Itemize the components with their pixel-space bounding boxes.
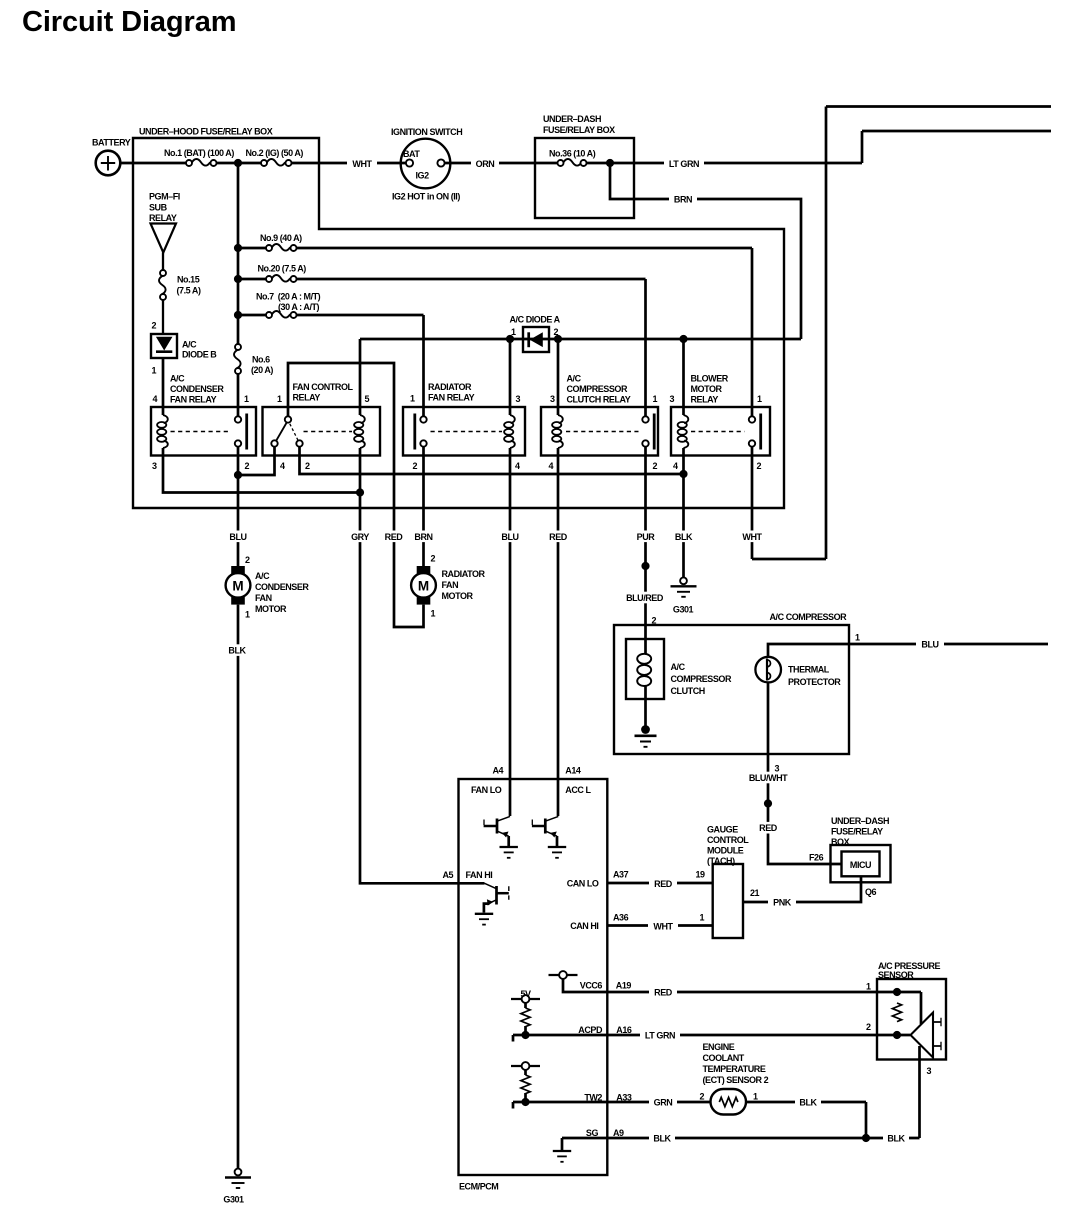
wire fuse No.9 to blower relay pin 1 (238, 248, 752, 416)
svg-text:(ECT) SENSOR 2: (ECT) SENSOR 2 (703, 1075, 769, 1085)
wire blower relay pin 3 drop (682, 339, 685, 415)
ground (ECM SG) (553, 1150, 571, 1152)
wire compressor clutch coil to ground (644, 686, 647, 727)
svg-text:FUSE/RELAY: FUSE/RELAY (831, 827, 883, 837)
svg-text:2: 2 (866, 1022, 871, 1032)
junction diode A pin 1 node (506, 335, 514, 343)
svg-text:3: 3 (927, 1066, 932, 1076)
svg-text:No.6: No.6 (252, 354, 270, 364)
wire label BLU (ECM A4) (495, 531, 525, 543)
gauge control module box (713, 864, 743, 938)
svg-text:No.36 (10 A): No.36 (10 A) (549, 149, 596, 159)
5V supply (ACPD pull-up) (511, 998, 540, 1000)
svg-text:MICU: MICU (850, 860, 871, 870)
wire BLK condenser fan motor to G301 (237, 605, 240, 1169)
svg-text:2: 2 (152, 321, 157, 331)
svg-text:F26: F26 (809, 852, 824, 862)
svg-text:(20 A): (20 A) (251, 365, 273, 375)
svg-text:ECM/PCM: ECM/PCM (459, 1182, 498, 1192)
wire label RED (fan control pin 1) (379, 531, 409, 543)
svg-text:1: 1 (277, 394, 282, 404)
wire label BLU/WHT (744, 772, 792, 784)
svg-text:CAN HI: CAN HI (570, 921, 598, 931)
wire label RED (ECM A14) (543, 531, 573, 543)
svg-text:BLK: BLK (675, 532, 693, 542)
wire label WHT (347, 158, 377, 170)
svg-text:VCC6: VCC6 (580, 980, 603, 990)
svg-text:1: 1 (431, 609, 436, 619)
blower motor relay box (671, 407, 770, 456)
svg-text:TW2: TW2 (584, 1093, 602, 1103)
svg-text:2: 2 (757, 461, 762, 471)
svg-text:No.1 (BAT) (100 A): No.1 (BAT) (100 A) (164, 148, 234, 158)
svg-text:BLK: BLK (228, 646, 246, 656)
relay switch (fan control relay) (285, 416, 291, 422)
svg-text:FAN: FAN (442, 580, 459, 590)
wire BLK blower pin 4 to G301 (682, 448, 685, 577)
svg-text:A14: A14 (565, 765, 581, 775)
svg-text:GRY: GRY (351, 532, 369, 542)
wire label RED (to F26) (754, 822, 782, 834)
svg-text:1: 1 (653, 394, 658, 404)
svg-text:G301: G301 (673, 605, 694, 615)
svg-text:A/C: A/C (255, 571, 270, 581)
svg-text:DIODE B: DIODE B (182, 350, 217, 360)
wire label ORN (471, 158, 499, 170)
svg-text:Circuit Diagram: Circuit Diagram (22, 6, 236, 38)
relay contact (radiator fan relay) (420, 416, 426, 422)
svg-text:RADIATOR: RADIATOR (442, 569, 486, 579)
fuse No.9 (40 A) (272, 244, 290, 251)
svg-text:ORN: ORN (476, 159, 495, 169)
ground G301 (condenser fan motor BLK) (235, 1169, 242, 1176)
svg-text:UNDER–DASH: UNDER–DASH (831, 816, 889, 826)
svg-text:1: 1 (245, 610, 250, 620)
wire fan control pin 1 / RED to radiator fan motor pin 1 (288, 363, 424, 627)
wire BLU radiator pin 4 to ECM A4 (509, 448, 512, 816)
svg-text:SUB: SUB (149, 202, 168, 212)
relay contact (A/C compressor clutch relay) (642, 416, 648, 422)
svg-text:M: M (418, 578, 429, 593)
A/C compressor box (614, 625, 849, 754)
transistor FAN HI (A5) (485, 883, 497, 889)
PGM-FI sub relay triangle (151, 224, 177, 253)
svg-text:No.9 (40 A): No.9 (40 A) (260, 233, 302, 243)
wire PGM-FI sub relay to fuse No.15 (162, 253, 164, 335)
wire label BLU (condenser motor) (223, 531, 253, 543)
svg-text:BOX: BOX (831, 837, 850, 847)
svg-text:WHT: WHT (742, 532, 762, 542)
A/C compressor clutch relay box (541, 407, 658, 456)
relay coil (A/C condenser fan relay) (163, 415, 168, 423)
wire BRN radiator pin 2 to radiator fan motor (422, 447, 425, 566)
svg-text:IG2: IG2 (416, 171, 430, 181)
svg-text:1: 1 (410, 394, 415, 404)
svg-text:No.7 (20 A : M/T): No.7 (20 A : M/T) (256, 292, 321, 302)
wire label BLK (A9) (649, 1132, 675, 1144)
svg-text:FAN CONTROL: FAN CONTROL (293, 382, 354, 392)
A/C diode A box (523, 327, 549, 352)
svg-text:CLUTCH RELAY: CLUTCH RELAY (567, 394, 631, 404)
svg-text:WHT: WHT (653, 921, 673, 931)
5V supply (TW2 pull-up) (511, 1065, 540, 1067)
svg-text:5V: 5V (520, 989, 531, 999)
svg-text:PUR: PUR (637, 532, 656, 542)
svg-text:COMPRESSOR: COMPRESSOR (671, 674, 732, 684)
junction TW2 pull-up node (521, 1098, 529, 1106)
svg-text:4: 4 (153, 394, 158, 404)
splice dot PUR to BLU/RED (641, 562, 649, 570)
svg-text:A4: A4 (493, 765, 504, 775)
svg-text:No.15: No.15 (177, 275, 200, 285)
svg-text:BRN: BRN (414, 532, 432, 542)
svg-text:LT GRN: LT GRN (645, 1031, 675, 1041)
svg-text:A/C: A/C (671, 662, 686, 672)
wire CAN LO RED (607, 882, 712, 885)
svg-text:MOTOR: MOTOR (691, 384, 723, 394)
svg-text:3: 3 (670, 394, 675, 404)
svg-text:1: 1 (511, 327, 516, 337)
svg-text:RED: RED (549, 532, 568, 542)
junction ACPD pull-up node (521, 1031, 529, 1039)
svg-text:2: 2 (554, 327, 559, 337)
svg-text:CAN LO: CAN LO (567, 879, 599, 889)
under-hood fuse/relay box (133, 138, 784, 508)
svg-text:(7.5 A): (7.5 A) (177, 286, 201, 296)
svg-text:RED: RED (654, 988, 673, 998)
svg-text:G301: G301 (223, 1195, 244, 1205)
wire GRY fan control pin 3 to ECM FAN HI (A5) (360, 448, 485, 883)
svg-text:FAN HI: FAN HI (466, 870, 493, 880)
wire main bus from battery junction down to condenser relay pin 1 (237, 163, 240, 416)
wire SG / A9 BLK to pressure sensor pin 3 (562, 1046, 920, 1151)
battery (96, 151, 121, 176)
svg-text:5: 5 (365, 394, 370, 404)
svg-text:CONTROL: CONTROL (707, 835, 749, 845)
A/C compressor clutch coil (637, 654, 651, 664)
resistor (ECT sensor 2) (719, 1097, 738, 1106)
svg-text:THERMAL: THERMAL (788, 664, 830, 674)
wire diode A row (coil feed bus) (360, 338, 801, 341)
wire label LT GRN (A16) (640, 1029, 680, 1041)
svg-text:2: 2 (245, 555, 250, 565)
svg-text:A33: A33 (616, 1093, 632, 1103)
splice dot BLU/WHT to RED (764, 799, 772, 807)
svg-text:GAUGE: GAUGE (707, 825, 738, 835)
wire label PUR (clutch relay pin 2) (631, 531, 661, 543)
relay contact (A/C condenser fan relay) (235, 416, 241, 422)
fuse No.2 (IG)(50 A) (267, 159, 285, 166)
radiator fan motor terminal 1 (417, 596, 431, 604)
wire compressor pin 1 BLU (768, 644, 1048, 657)
wire label GRY (fan control pin 3) (345, 531, 375, 543)
relay coil (blower motor relay) (684, 415, 689, 423)
A/C diode B symbol (157, 337, 172, 349)
svg-text:19: 19 (696, 870, 706, 880)
svg-text:BLU/WHT: BLU/WHT (749, 773, 788, 783)
resistor (ACPD pull-up) (521, 1008, 530, 1027)
svg-text:WHT: WHT (352, 159, 372, 169)
wire PUR / BLU-RED clutch pin 2 to compressor clutch coil (644, 447, 647, 654)
wire label BLU/RED (622, 592, 668, 604)
wire label BLU (compressor pin1) (916, 638, 944, 650)
wire fan control pin 2 to blower pin 4 junction (300, 447, 684, 474)
svg-text:A/C: A/C (182, 340, 197, 350)
svg-text:21: 21 (750, 888, 760, 898)
svg-text:FAN LO: FAN LO (471, 785, 502, 795)
svg-text:1: 1 (152, 365, 157, 375)
svg-text:FUSE/RELAY BOX: FUSE/RELAY BOX (543, 125, 615, 135)
svg-text:2: 2 (653, 461, 658, 471)
resistor (A/C pressure sensor) (892, 1003, 901, 1022)
under-dash fuse/relay box (lower, MICU) (831, 845, 891, 882)
svg-text:(TACH): (TACH) (707, 856, 735, 866)
svg-text:ENGINE: ENGINE (703, 1042, 735, 1052)
svg-text:M: M (232, 578, 243, 593)
svg-text:2: 2 (431, 554, 436, 564)
svg-text:FAN RELAY: FAN RELAY (428, 393, 475, 403)
ignition switch (401, 139, 451, 189)
svg-text:BLK: BLK (799, 1098, 817, 1108)
svg-text:4: 4 (280, 461, 285, 471)
wire ignition to under-dash box (ORN) (445, 162, 558, 165)
svg-text:RELAY: RELAY (691, 394, 719, 404)
svg-text:1: 1 (753, 1092, 758, 1102)
svg-text:BLU: BLU (921, 639, 938, 649)
wire label PNK (768, 896, 796, 908)
wire label GRN (A33) (649, 1096, 677, 1108)
radiator fan motor terminal 2 (417, 566, 431, 574)
wire fan control pin 4 to condenser pin 2 junction (238, 447, 275, 475)
svg-text:TEMPERATURE: TEMPERATURE (703, 1064, 766, 1074)
svg-text:2: 2 (413, 461, 418, 471)
wire diode B to condenser relay pin 4 (162, 358, 165, 415)
relay contact (blower motor relay) (749, 416, 755, 422)
svg-text:CONDENSER: CONDENSER (255, 582, 309, 592)
svg-text:A/C: A/C (567, 373, 582, 383)
wire top right net to WHT (blower relay pin 2) (752, 107, 1051, 560)
svg-text:IG2 HOT in ON (II): IG2 HOT in ON (II) (392, 192, 460, 202)
wire fuse No.7 to radiator relay pin 1 (238, 315, 424, 416)
svg-text:A5: A5 (443, 870, 454, 880)
relay coil (A/C compressor clutch relay) (558, 415, 563, 423)
junction condenser pin 3 / GRY node (356, 488, 364, 496)
svg-text:3: 3 (516, 394, 521, 404)
junction pressure sensor pin 1 node (893, 988, 901, 996)
A/C pressure sensor box (877, 979, 946, 1060)
wire label RED (CAN LO) (649, 878, 677, 890)
relay coil (fan control relay) (360, 415, 365, 423)
svg-text:RADIATOR: RADIATOR (428, 382, 472, 392)
fan control relay box (263, 407, 381, 456)
svg-text:FAN RELAY: FAN RELAY (170, 395, 217, 405)
svg-text:BRN: BRN (674, 195, 692, 205)
svg-text:3: 3 (152, 461, 157, 471)
ground G301 (blower relay / BLK) (680, 577, 687, 584)
svg-text:GRN: GRN (654, 1098, 673, 1108)
svg-text:2: 2 (700, 1092, 705, 1102)
A/C condenser fan relay box (151, 407, 256, 456)
svg-text:4: 4 (549, 461, 554, 471)
svg-text:A16: A16 (616, 1025, 632, 1035)
svg-text:SENSOR: SENSOR (878, 970, 914, 980)
wire MICU Q6 PNK to gauge module pin 21 (743, 876, 861, 902)
svg-text:PNK: PNK (773, 898, 792, 908)
fuse No.20 (7.5 A) (272, 275, 290, 282)
wire CAN HI WHT (607, 924, 712, 927)
svg-text:2: 2 (305, 461, 310, 471)
wire BLU condenser pin 2 to condenser fan motor (237, 447, 240, 566)
svg-text:MODULE: MODULE (707, 846, 744, 856)
svg-text:ACPD: ACPD (578, 1025, 603, 1035)
svg-text:A9: A9 (613, 1128, 624, 1138)
svg-text:A36: A36 (613, 913, 629, 923)
wire RED clutch pin 4 to ECM A14 (557, 448, 560, 816)
wire radiator relay pin 3 drop (509, 339, 512, 415)
svg-text:LT GRN: LT GRN (669, 159, 699, 169)
wire fan control relay pin 5 drop (359, 339, 362, 415)
junction fuse No.36 output (606, 159, 614, 167)
svg-text:CLUTCH: CLUTCH (671, 686, 705, 696)
5V supply (VCC6) (549, 974, 578, 976)
svg-text:BAT: BAT (403, 149, 420, 159)
wire label BLK (blower ground) (669, 531, 699, 543)
svg-text:BLU/RED: BLU/RED (626, 593, 664, 603)
svg-text:COMPRESSOR: COMPRESSOR (567, 384, 628, 394)
ground (A/C compressor clutch) (641, 725, 650, 734)
A/C condenser fan motor terminal 1 (231, 596, 245, 604)
svg-text:UNDER–HOOD FUSE/RELAY BOX: UNDER–HOOD FUSE/RELAY BOX (139, 127, 273, 137)
svg-text:PGM–FI: PGM–FI (149, 192, 180, 202)
svg-text:FAN: FAN (255, 593, 272, 603)
svg-text:2: 2 (245, 461, 250, 471)
junction No.7 tap (234, 311, 242, 319)
svg-text:BLU: BLU (501, 532, 518, 542)
junction pressure sensor pin 2 node (893, 1031, 901, 1039)
fuse No.6 (20 A) (234, 350, 241, 368)
wire fuse No.20 to clutch relay pin 1 (238, 279, 646, 416)
wire label BRN (radiator motor) (409, 531, 439, 543)
svg-text:1: 1 (700, 913, 705, 923)
radiator fan motor body (411, 573, 436, 598)
ECM/PCM box (459, 779, 608, 1175)
svg-text:A37: A37 (613, 870, 629, 880)
svg-text:BLK: BLK (887, 1134, 905, 1144)
wire label WHT (CAN HI) (648, 920, 678, 932)
junction condenser pin 2 / fan control pin 4 node (234, 471, 242, 479)
svg-text:1: 1 (866, 982, 871, 992)
svg-text:Q6: Q6 (865, 887, 877, 897)
wire label BRN (669, 193, 697, 205)
relay coil (radiator fan relay) (510, 415, 515, 423)
svg-text:1: 1 (757, 394, 762, 404)
A/C condenser fan motor terminal 2 (231, 566, 245, 574)
junction bus tap at fuse No.1/No.2 (234, 159, 242, 167)
junction blower relay pin 3 node (679, 335, 687, 343)
svg-text:RED: RED (654, 879, 673, 889)
svg-text:No.20 (7.5 A): No.20 (7.5 A) (258, 264, 307, 274)
svg-text:BLK: BLK (653, 1134, 671, 1144)
A/C pressure sensor amplifier (911, 1013, 934, 1058)
junction No.9 tap (234, 244, 242, 252)
svg-text:BLOWER: BLOWER (691, 373, 729, 383)
A/C diode B box (151, 334, 177, 358)
svg-text:SG: SG (586, 1128, 599, 1138)
wire ACPD / A16 LT GRN to pressure sensor pin 2 (513, 1003, 910, 1042)
svg-text:RED: RED (759, 823, 778, 833)
thermal protector (755, 657, 781, 683)
wire label BLK (sensor gnd) (883, 1132, 909, 1144)
svg-text:MOTOR: MOTOR (442, 591, 474, 601)
svg-text:A19: A19 (616, 980, 632, 990)
under-dash fuse/relay box (top) (535, 138, 634, 218)
A/C diode A symbol (527, 332, 530, 347)
svg-text:4: 4 (515, 461, 520, 471)
svg-text:COOLANT: COOLANT (703, 1053, 745, 1063)
relay internal dashed links (171, 431, 745, 433)
fuse No.1 (BAT)(100 A) (192, 159, 210, 166)
junction No.20 tap (234, 275, 242, 283)
svg-text:PROTECTOR: PROTECTOR (788, 677, 841, 687)
wire label RED (A19) (649, 986, 677, 998)
transistor FAN LO (A4) (498, 816, 510, 821)
wire BRN from under-dash box to diode row (610, 163, 801, 339)
fuse No.15 (7.5 A) (159, 276, 166, 294)
svg-text:A/C COMPRESSOR: A/C COMPRESSOR (770, 612, 848, 622)
svg-text:UNDER–DASH: UNDER–DASH (543, 114, 601, 124)
svg-text:IGNITION SWITCH: IGNITION SWITCH (391, 127, 462, 137)
transistor ACC L (A14) (546, 816, 558, 821)
MICU inner box (842, 852, 880, 877)
svg-text:1: 1 (244, 394, 249, 404)
svg-text:4: 4 (673, 461, 678, 471)
wire clutch relay pin 3 drop (557, 339, 560, 415)
wire label BLK (ECT) (795, 1096, 821, 1108)
svg-text:1: 1 (855, 633, 860, 643)
svg-text:BLU: BLU (229, 532, 246, 542)
svg-text:BATTERY: BATTERY (92, 138, 131, 148)
wire label WHT (blower pin 2) (737, 531, 767, 543)
junction blower pin 4 / fan control pin 2 node (679, 470, 687, 478)
svg-text:RELAY: RELAY (293, 393, 321, 403)
junction BLK ground node (862, 1134, 870, 1142)
A/C condenser fan motor body (226, 573, 251, 598)
wire label LT GRN (664, 158, 704, 170)
svg-text:ACC L: ACC L (565, 785, 591, 795)
svg-text:2: 2 (652, 616, 657, 626)
radiator fan relay box (403, 407, 525, 456)
svg-text:A/C DIODE A: A/C DIODE A (510, 314, 561, 324)
wire condenser relay pin 3 to GRY junction (163, 448, 360, 493)
fuse No.7 (272, 311, 290, 318)
svg-text:CONDENSER: CONDENSER (170, 384, 224, 394)
A/C compressor clutch inner box (626, 639, 664, 699)
svg-text:(30 A : A/T): (30 A : A/T) (278, 302, 320, 312)
svg-text:3: 3 (550, 394, 555, 404)
wire battery to ignition switch (WHT) (121, 162, 407, 165)
resistor (TW2 pull-up) (521, 1075, 530, 1094)
wire ECT sensor BLK branch (746, 1102, 866, 1138)
wire LT GRN from fuse No.36 to right edge (587, 131, 1051, 163)
wire TW2 / A33 GRN to ECT sensor (513, 1070, 711, 1109)
svg-text:RED: RED (385, 532, 404, 542)
wire VCC6 / A19 RED to pressure sensor pin 1 (563, 979, 921, 1024)
fuse No.36 (10 A) (563, 159, 581, 166)
svg-text:No.2 (IG) (50 A): No.2 (IG) (50 A) (246, 148, 304, 158)
svg-text:RELAY: RELAY (149, 213, 177, 223)
wire label BLK (condenser motor) (224, 644, 250, 656)
junction clutch relay pin 3 node (554, 335, 562, 343)
